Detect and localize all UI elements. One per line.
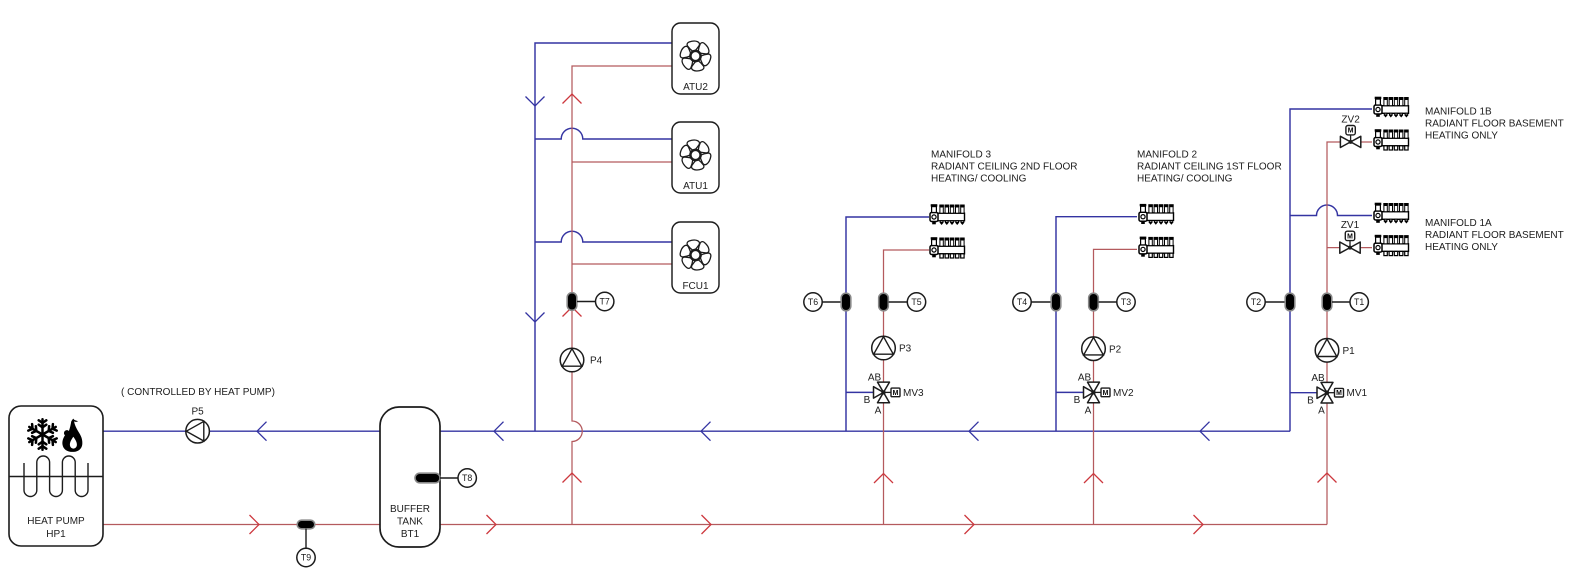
svg-text:RADIANT CEILING 1ST FLOOR: RADIANT CEILING 1ST FLOOR [1137,162,1282,173]
svg-text:ATU1: ATU1 [683,181,708,192]
flow arrow red main x=496 [487,515,497,534]
temperature sensor T5 [879,293,926,311]
svg-text:ATU2: ATU2 [683,82,708,93]
svg-text:HEATING/ COOLING: HEATING/ COOLING [1137,174,1233,185]
wire red main supply line [103,524,1327,526]
svg-text:B: B [1074,395,1081,406]
flow arrow red riser up manifold 1 column [1318,473,1337,483]
svg-text:T8: T8 [462,473,472,483]
svg-text:MANIFOLD 3: MANIFOLD 3 [931,150,991,161]
svg-text:B: B [864,395,871,406]
svg-text:RADIANT FLOOR BASEMENT: RADIANT FLOOR BASEMENT [1425,119,1564,130]
fan coil unit FCU1 [672,222,719,293]
flow arrow red main x=259 [250,515,260,534]
temperature sensor T6 [804,293,851,311]
wire blue branch to manifold 1A with jump over red riser [1290,205,1372,216]
flow arrow red riser up P2 column [1084,474,1103,484]
temperature sensor T1 [1322,293,1368,311]
flow arrow red main x=1203 [1194,515,1204,534]
svg-text:HP1: HP1 [46,529,66,540]
svg-text:M: M [1348,128,1354,135]
wire red branch to ATU1 [572,161,672,163]
svg-text:HEAT PUMP: HEAT PUMP [27,516,85,527]
svg-text:MV3: MV3 [903,388,924,399]
buffer tank BT1 [380,407,440,547]
pump P5 [186,407,210,444]
svg-text:P1: P1 [1343,346,1356,357]
air terminal unit ATU2 [672,23,719,94]
svg-text:A: A [1085,405,1092,416]
manifold 1A return manifold [1374,203,1409,224]
wire blue stub to valve MV3 port B [846,391,875,393]
pump P3 [872,336,912,360]
svg-text:A: A [875,405,882,416]
wire red branch to manifold 1A [1327,247,1372,249]
pump P2 [1082,337,1122,361]
svg-text:ZV1: ZV1 [1341,220,1360,231]
svg-text:A: A [1318,406,1325,417]
flow arrow blue main x=257 [257,422,267,441]
svg-text:T6: T6 [808,297,818,307]
wire blue riser ATU/FCU column [535,43,672,431]
manifold 3 supply manifold [930,237,965,258]
svg-text:HEATING ONLY: HEATING ONLY [1425,131,1498,142]
temperature sensor T3 [1089,293,1136,311]
label manifold 3 [931,150,1078,185]
flow arrow red riser up y=473 [563,473,582,483]
manifold 3 return manifold [930,204,965,225]
svg-text:T1: T1 [1354,297,1364,307]
temperature sensor T8 [415,469,476,487]
wire blue main return line [103,430,1290,432]
wire blue riser manifold 1 column [1290,109,1372,431]
svg-text:BUFFER: BUFFER [390,504,430,515]
wire blue riser P3 column [846,217,929,431]
flow arrow red riser up y=307 [563,307,582,317]
svg-text:RADIANT CEILING 2ND FLOOR: RADIANT CEILING 2ND FLOOR [931,162,1078,173]
label manifold 1A [1425,218,1564,253]
svg-text:T2: T2 [1251,297,1261,307]
mixing valve MV3 [864,373,924,417]
svg-text:AB: AB [1311,373,1325,384]
svg-text:T7: T7 [600,297,610,307]
wire red riser manifold 1 column [1327,142,1372,525]
mixing valve MV2 [1074,373,1134,417]
wire blue branch to ATU1 with jump over red riser [535,128,672,139]
flow arrow blue main x=494 [494,422,504,441]
svg-text:( CONTROLLED BY HEAT PUMP): ( CONTROLLED BY HEAT PUMP) [121,387,275,398]
svg-text:T4: T4 [1017,297,1027,307]
svg-text:HEATING ONLY: HEATING ONLY [1425,242,1498,253]
temperature sensor T4 [1013,293,1061,311]
manifold 2 return manifold [1139,204,1174,225]
svg-text:BT1: BT1 [401,529,420,540]
svg-text:AB: AB [868,373,882,384]
svg-text:AB: AB [1078,373,1092,384]
svg-text:P5: P5 [191,407,204,418]
wire blue branch to FCU1 with jump over red riser [535,231,672,242]
svg-text:MV2: MV2 [1113,388,1134,399]
svg-text:FCU1: FCU1 [682,281,709,292]
svg-text:HEATING/ COOLING: HEATING/ COOLING [931,174,1027,185]
air terminal unit ATU1 [672,122,719,193]
wire red riser ATU/FCU column with jump over blue main [572,66,672,525]
svg-text:MANIFOLD 2: MANIFOLD 2 [1137,150,1197,161]
svg-text:B: B [1307,395,1314,406]
label manifold 1B [1425,107,1564,142]
svg-text:T5: T5 [911,297,921,307]
flow arrow blue riser down y=106 [526,97,545,107]
temperature sensor T2 [1247,293,1295,311]
wire red riser P3 column [884,250,930,525]
svg-text:P2: P2 [1109,344,1122,355]
flow arrow blue riser down y=322 [526,313,545,323]
svg-text:P4: P4 [590,356,603,367]
flow arrow red riser up P3 column [874,474,893,484]
svg-text:MANIFOLD 1A: MANIFOLD 1A [1425,218,1492,229]
pump P1 [1315,339,1355,363]
wire blue riser P2 column [1056,217,1137,432]
temperature sensor T9 [297,520,315,567]
svg-text:TANK: TANK [397,517,423,528]
manifold 1B return manifold [1374,97,1409,118]
temperature sensor T7 [567,292,614,310]
manifold 1A supply manifold [1374,235,1409,256]
label manifold 2 [1137,150,1282,185]
flow arrow red riser up y=94 [563,94,582,104]
svg-text:P3: P3 [899,344,912,355]
svg-text:M: M [1336,390,1342,397]
svg-text:M: M [1347,233,1353,240]
mixing valve MV1 [1307,373,1367,417]
flow arrow red main x=974 [965,515,975,534]
zone valve ZV2 [1340,114,1360,147]
svg-text:M: M [893,390,899,397]
flow arrow blue main x=701 [701,422,711,441]
flow arrow blue main x=969 [969,422,979,441]
label controlled by heat pump [121,387,275,398]
flow arrow red main x=711 [702,515,712,534]
manifold 1B supply manifold [1374,129,1409,150]
zone valve ZV1 [1340,220,1360,253]
svg-text:MANIFOLD 1B: MANIFOLD 1B [1425,107,1492,118]
svg-text:ZV2: ZV2 [1341,114,1360,125]
wire red branch to FCU1 [572,263,672,265]
pump P4 [560,348,602,372]
wire red riser P2 column [1094,249,1138,524]
flow arrow blue main x=1200 [1200,422,1210,441]
svg-text:T3: T3 [1121,297,1131,307]
manifold 2 supply manifold [1139,237,1174,258]
svg-text:M: M [1103,390,1109,397]
svg-text:T9: T9 [301,553,311,563]
svg-text:RADIANT FLOOR BASEMENT: RADIANT FLOOR BASEMENT [1425,230,1564,241]
heat pump HP1 [9,406,103,546]
wire blue stub to valve MV2 port B [1056,391,1085,393]
svg-text:MV1: MV1 [1347,388,1368,399]
wire blue stub to valve MV1 port B [1290,392,1318,394]
